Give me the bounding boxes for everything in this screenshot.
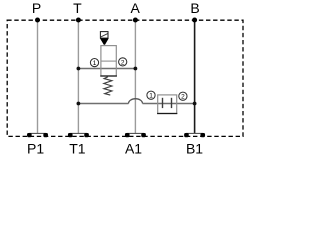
wire: T line (vertical) [77,20,79,134]
node B (top port dot) [192,18,197,23]
valve V1 pilot adjustment box [100,32,108,38]
svg-text:2: 2 [121,59,125,66]
manifold enclosure (dashed boundary) [7,20,243,136]
orifice V2 port circle 1 [147,91,155,99]
node P (top port dot) [35,18,40,23]
valve V1 body [101,46,116,76]
svg-text:B1: B1 [186,140,203,156]
wire: T to A through valve V1 [78,68,135,70]
valve V1 body division line [101,60,116,62]
junction: B line / wire2 [193,102,197,106]
svg-text:T: T [73,0,82,16]
bottom port A1 symbol [125,133,146,137]
orifice V2 port circle 2 [179,92,187,100]
svg-text:A: A [131,0,141,16]
svg-text:1: 1 [93,60,97,67]
valve V1 pilot cone (filled triangle) [100,38,109,44]
svg-text:B: B [190,0,199,16]
valve V1 spring [104,77,112,95]
wire: A line (vertical) [134,20,136,134]
junction: T line / wire2 [77,102,81,106]
orifice plug V2 body [158,95,177,114]
wire: P line (vertical) [37,20,39,134]
svg-text:1: 1 [149,93,153,100]
junction: T line / wire1 [77,67,81,71]
junction: A line / wire1 [134,67,138,71]
wire: T to orifice V2 (left segment, y=102) [78,103,128,105]
bottom port T1 symbol [68,133,89,137]
valve V1 port circle 1 [90,59,98,67]
svg-text:2: 2 [181,94,185,101]
valve V1 port circle 2 [119,58,127,66]
node T (top port dot) [76,18,81,23]
orifice V2 inner bar right [171,98,173,108]
orifice V2 inner bar left [162,98,164,108]
wire: hop to orifice V2 and through to B line [143,103,195,105]
valve V1 pilot adjustment arrow [101,34,108,37]
svg-text:P: P [32,0,41,16]
bottom port B1 symbol [184,133,205,137]
svg-text:P1: P1 [27,140,44,156]
svg-text:A1: A1 [125,140,142,156]
bottom port P1 symbol [27,133,48,137]
wire: B line (vertical) [194,20,196,134]
node A (top port dot) [133,18,138,23]
wire hop over A line [129,99,143,104]
svg-text:T1: T1 [69,140,86,156]
